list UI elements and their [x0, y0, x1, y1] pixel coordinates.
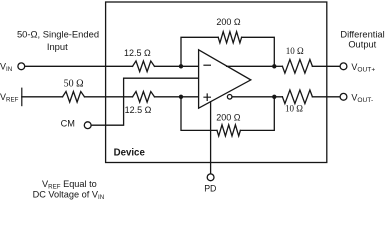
- svg-text:50-Ω, Single-Ended: 50-Ω, Single-Ended: [17, 28, 99, 39]
- svg-text:CM: CM: [61, 119, 75, 129]
- op-amp U1 non-inverting input label: [204, 94, 210, 100]
- svg-text:VIN: VIN: [0, 61, 12, 73]
- svg-text:200 Ω: 200 Ω: [216, 17, 241, 27]
- wire op-amp bottom output: [232, 96, 282, 98]
- wire PD pin: [210, 102, 212, 174]
- op-amp U1 fully differential amplifier: [199, 50, 251, 108]
- terminal VIN: [18, 63, 25, 70]
- resistor R4 200 Ω top feedback: [218, 32, 241, 43]
- wire VIN input: [25, 65, 133, 67]
- svg-text:10 Ω: 10 Ω: [285, 103, 303, 113]
- svg-text:VOUT+: VOUT+: [351, 62, 375, 74]
- wire R1 to op-amp inverting input: [155, 65, 199, 67]
- svg-text:Device: Device: [114, 147, 146, 158]
- node A inverting input junction: [179, 64, 183, 68]
- svg-text:Input: Input: [47, 41, 68, 52]
- svg-text:12.5 Ω: 12.5 Ω: [124, 48, 151, 58]
- svg-text:VREF: VREF: [0, 92, 19, 104]
- wire bottom feedback right vertical: [240, 97, 274, 131]
- terminal VOUT-: [340, 93, 347, 100]
- node C top output junction: [272, 64, 276, 68]
- svg-text:PD: PD: [204, 183, 216, 193]
- node B non-inverting input junction: [179, 95, 183, 99]
- resistor R6 10 Ω top output: [282, 60, 312, 74]
- svg-text:Differential: Differential: [340, 29, 384, 39]
- terminal CM: [84, 122, 91, 129]
- wire R6 to VOUT+ terminal: [312, 65, 340, 67]
- resistor R1 12.5 Ω (VIN to inverting input): [133, 61, 155, 72]
- wire R3 to op-amp non-inverting input: [155, 96, 199, 98]
- wire R2 to R3: [85, 96, 133, 98]
- wire op-amp top output: [227, 65, 275, 67]
- svg-text:Output: Output: [348, 39, 376, 49]
- wire bottom feedback left vertical: [181, 97, 217, 131]
- resistor R5 200 Ω bottom feedback: [217, 125, 240, 136]
- svg-text:VOUT-: VOUT-: [351, 92, 373, 104]
- terminal VREF bar: [21, 88, 23, 105]
- svg-text:DC Voltage of VIN: DC Voltage of VIN: [33, 189, 105, 200]
- terminal VOUT+: [340, 63, 347, 70]
- resistor R2 50 Ω (VREF series): [63, 92, 85, 103]
- svg-text:50 Ω: 50 Ω: [64, 78, 84, 89]
- op-amp U1 inverting input label: [204, 64, 210, 66]
- op-amp U1 inverted output bubble: [227, 95, 232, 100]
- wire VREF input: [22, 96, 63, 98]
- wire R7 to VOUT- terminal: [312, 96, 340, 98]
- terminal PD: [207, 174, 214, 181]
- resistor R3 12.5 Ω (to non-inverting input): [133, 92, 155, 103]
- wire top feedback right vertical: [242, 37, 275, 66]
- svg-text:10 Ω: 10 Ω: [286, 46, 304, 56]
- wire top feedback left vertical: [181, 37, 218, 66]
- wire CM input: [91, 78, 199, 125]
- Device box: [106, 2, 327, 163]
- node D bottom output junction: [272, 95, 276, 99]
- resistor R7 10 Ω bottom output: [282, 90, 312, 104]
- wire top output to R6: [274, 65, 282, 67]
- svg-text:12.5 Ω: 12.5 Ω: [125, 105, 152, 115]
- svg-text:200 Ω: 200 Ω: [216, 113, 241, 123]
